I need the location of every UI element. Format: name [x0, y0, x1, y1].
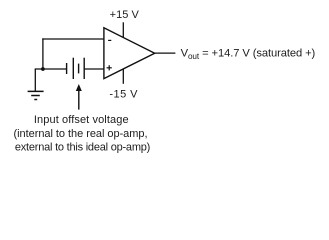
svg-text:+15 V: +15 V	[110, 9, 140, 21]
battery V_offset plate 4 (tall, +)	[83, 58, 85, 79]
battery V_offset plate 1 (short, -)	[66, 63, 68, 74]
op-amp non-inverting input "+" symbol	[107, 65, 112, 70]
wire: ground run to battery (left horizontal)	[35, 68, 67, 70]
svg-text:Vout = +14.7 V (saturated +): Vout = +14.7 V (saturated +)	[181, 48, 316, 61]
svg-text:Input offset voltage: Input offset voltage	[34, 114, 129, 126]
output wire	[155, 52, 176, 54]
ground	[28, 91, 44, 99]
wire: battery to non-inverting input	[84, 68, 104, 70]
annotation arrow pointing at battery	[76, 84, 82, 110]
svg-text:(internal to the real op-amp,: (internal to the real op-amp,	[14, 128, 148, 140]
op-amp inverting input "-" symbol	[108, 39, 111, 41]
wire: vertical from node A up to top run	[42, 38, 44, 69]
op-amp U1	[104, 28, 155, 79]
node A junction dot	[41, 67, 45, 71]
wire: ground stem	[34, 69, 36, 91]
wire: inverting input feedback run (top horizontal)	[42, 38, 104, 40]
battery V_offset plate 3 (short, -)	[78, 64, 80, 74]
-15 V supply wire (bottom)	[122, 69, 124, 84]
+15 V supply wire (top)	[122, 22, 124, 37]
svg-text:-15 V: -15 V	[109, 88, 138, 100]
svg-text:external to this ideal op-amp): external to this ideal op-amp)	[15, 141, 150, 153]
battery V_offset plate 2 (tall, +)	[72, 58, 74, 79]
